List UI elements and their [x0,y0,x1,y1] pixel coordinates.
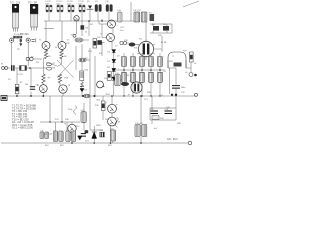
svg-text:100n: 100n [56,3,60,5]
svg-text:GS - 96 V: GS - 96 V [167,138,178,141]
svg-text:P1 4k7: P1 4k7 [14,34,22,36]
svg-text:22k: 22k [36,62,39,64]
svg-text:C2 R1: C2 R1 [17,74,24,76]
svg-text:47k: 47k [99,53,102,55]
svg-text:GL1 = B80C1500: GL1 = B80C1500 [12,126,33,130]
svg-text:F1 2A: F1 2A [161,41,167,44]
svg-text:log: log [17,49,20,51]
svg-text:100n: 100n [78,3,82,5]
svg-text:C11 C12: C11 C12 [133,10,142,12]
svg-text:BD 249: BD 249 [20,32,29,36]
svg-text:1k: 1k [85,32,87,34]
svg-text:1k: 1k [55,47,57,49]
svg-text:C22 C23: C22 C23 [44,134,53,136]
svg-text:10u: 10u [120,30,123,32]
svg-text:NTC: NTC [158,35,163,37]
svg-text:100n: 100n [45,3,49,5]
svg-text:TO - 3P: TO - 3P [28,1,37,5]
svg-text:TO - 126: TO - 126 [10,1,21,5]
svg-text:1M: 1M [25,84,28,86]
svg-text:C19 C20: C19 C20 [135,123,144,125]
svg-text:100n: 100n [67,3,71,5]
